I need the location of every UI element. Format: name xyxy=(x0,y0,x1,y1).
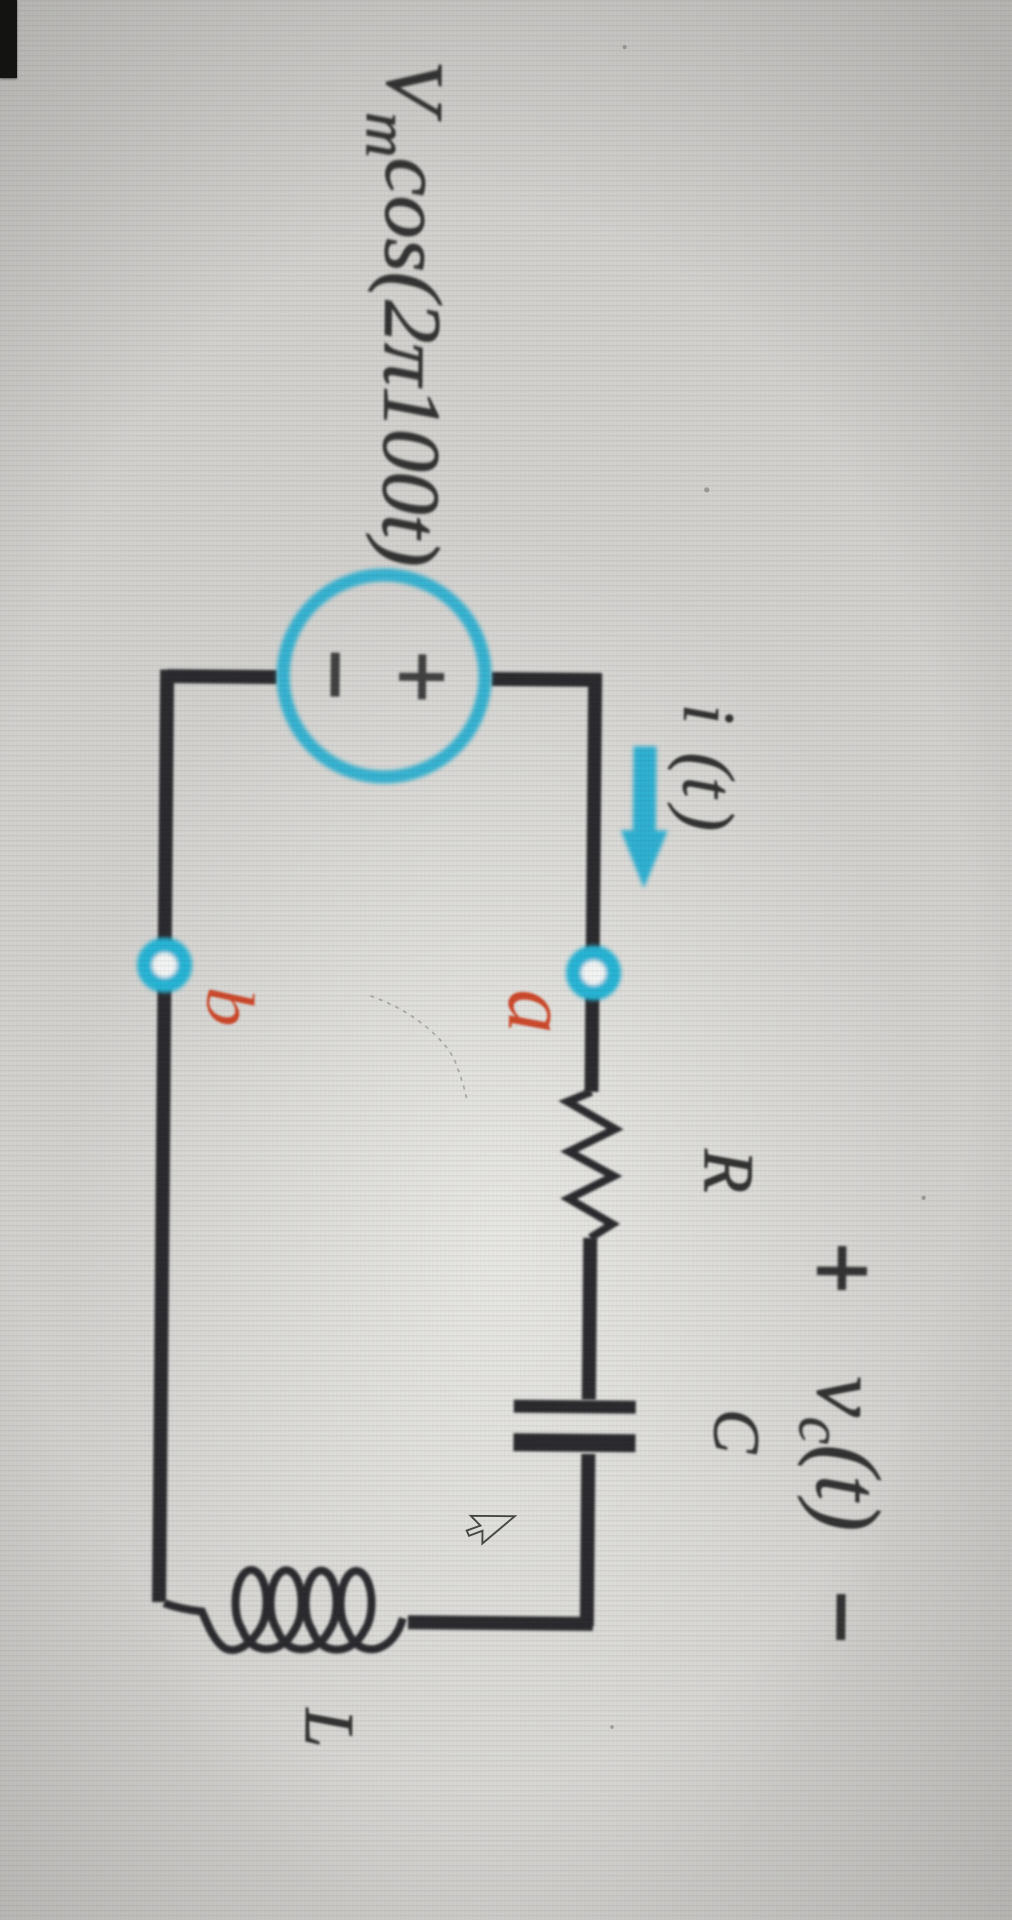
current arrow i(t) xyxy=(620,746,668,888)
wire: left side, top-left corner to source top xyxy=(491,672,601,687)
minus sign of vc(t) xyxy=(836,1594,845,1640)
resistor R xyxy=(566,1092,615,1238)
wire: top wire, left segment (corner to resistor) xyxy=(592,673,596,1091)
artifact: faint hair scratch on screen xyxy=(369,996,468,1103)
node b xyxy=(144,945,184,985)
wire: bottom wire xyxy=(159,670,167,1602)
minus sign inside source xyxy=(330,653,339,697)
plus sign of vc(t) xyxy=(817,1246,867,1290)
wire: top wire, resistor to capacitor xyxy=(589,1238,590,1400)
wire: right wire, corner down to coil xyxy=(408,1622,593,1624)
plus sign inside source xyxy=(399,654,444,699)
node a xyxy=(573,953,613,993)
artifact: dust specks xyxy=(608,45,936,1731)
capacitor C plate 1 xyxy=(514,1406,636,1407)
inductor L coil xyxy=(164,1569,404,1651)
voltage source circle xyxy=(282,574,486,778)
wire: top wire, capacitor to top-right corner xyxy=(587,1454,589,1626)
mouse cursor xyxy=(467,1516,515,1544)
wire: left side, source bottom to bottom-left corner xyxy=(167,669,277,684)
capacitor C plate 2 xyxy=(513,1442,635,1443)
